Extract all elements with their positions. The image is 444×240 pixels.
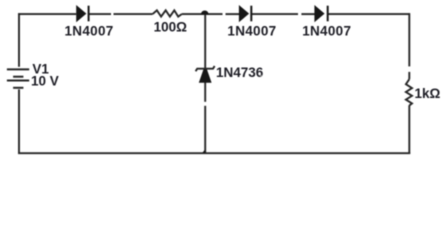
svg-text:1kΩ: 1kΩ — [415, 86, 441, 101]
svg-text:1N4736: 1N4736 — [216, 65, 264, 80]
svg-text:10 V: 10 V — [31, 74, 59, 89]
svg-text:1N4007: 1N4007 — [227, 24, 276, 39]
svg-text:100Ω: 100Ω — [154, 20, 188, 35]
svg-text:1N4007: 1N4007 — [65, 24, 114, 39]
svg-text:1N4007: 1N4007 — [302, 24, 351, 39]
